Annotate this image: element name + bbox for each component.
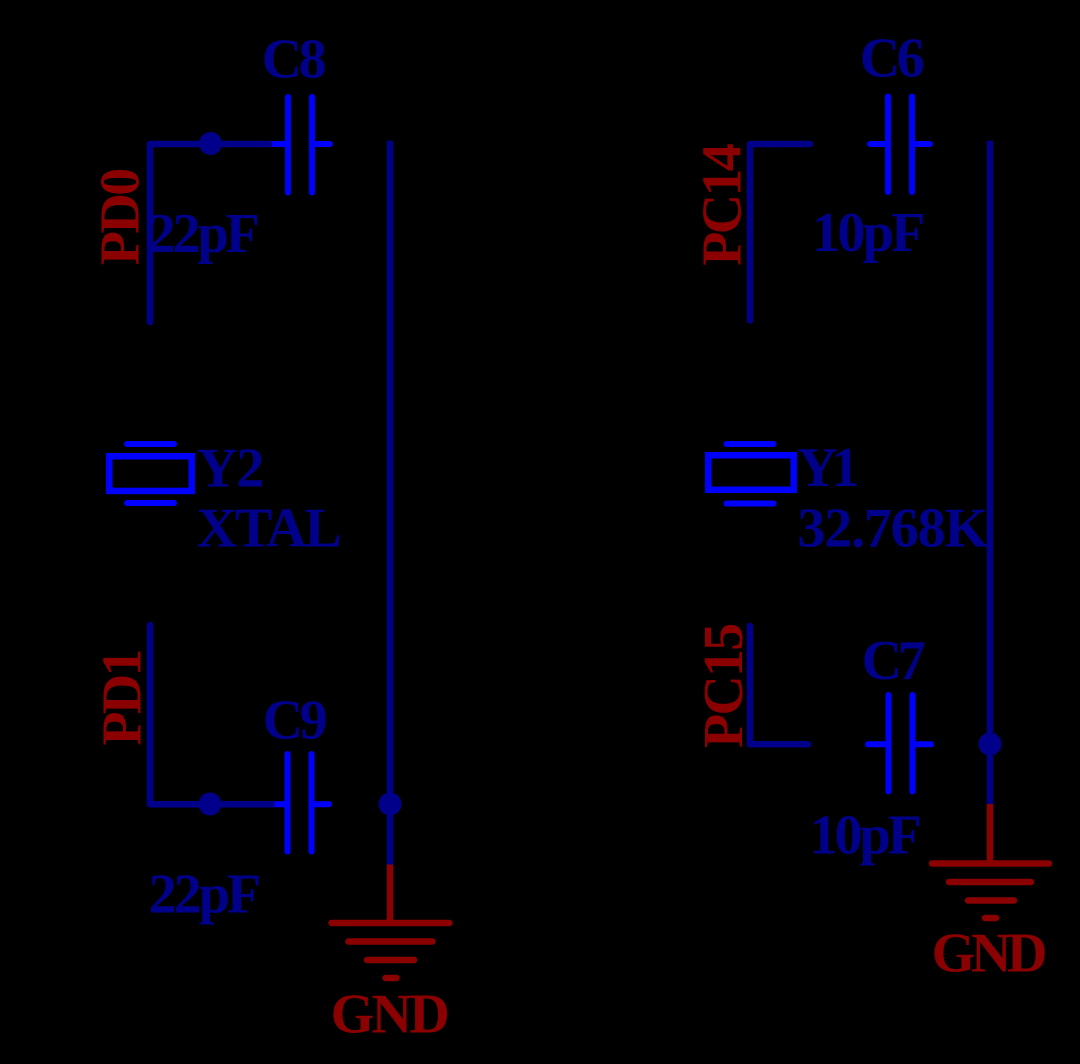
svg-text:Y1: Y1 [797,437,859,499]
svg-text:22pF: 22pF [148,203,260,265]
svg-text:PD0: PD0 [90,168,152,265]
svg-text:22pF: 22pF [149,863,262,925]
svg-text:GND: GND [331,984,450,1046]
svg-text:C8: C8 [262,28,327,90]
svg-text:PC15: PC15 [693,623,755,748]
svg-text:GND: GND [932,923,1048,985]
svg-text:PC14: PC14 [692,143,754,266]
svg-text:C9: C9 [263,690,328,752]
svg-text:10pF: 10pF [812,202,925,264]
svg-text:C6: C6 [860,28,925,90]
svg-text:PD1: PD1 [92,649,154,746]
svg-text:Y2: Y2 [197,438,264,500]
svg-text:XTAL: XTAL [197,498,342,560]
svg-text:32.768K: 32.768K [797,498,988,560]
svg-text:10pF: 10pF [810,804,922,866]
svg-text:C7: C7 [862,630,926,692]
